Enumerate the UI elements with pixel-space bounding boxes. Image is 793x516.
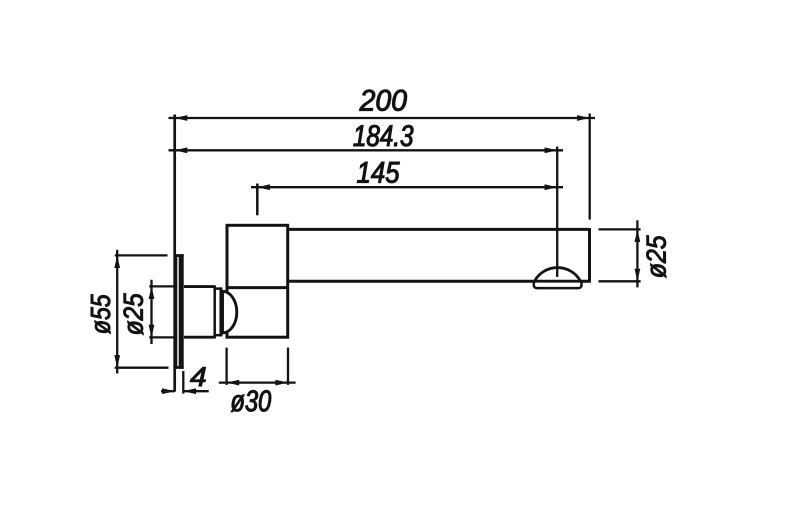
- stem top line (diameter25 inlet shank): [183, 285, 215, 288]
- dimension 4 line right piece: [183, 390, 208, 392]
- diameter25 right bottom extension line: [599, 280, 641, 282]
- dimension 184.3 line: [169, 149, 564, 151]
- label diameter25 left: [124, 293, 144, 335]
- wall flange plate (diameter55 x 4) white underlay: [175, 254, 184, 369]
- wall flange right face band: [179, 254, 184, 369]
- diameter30 right arrow: [275, 380, 288, 386]
- dimension 145 line: [251, 186, 563, 188]
- diameter25 right top extension line: [599, 228, 641, 230]
- stem end vertical: [213, 285, 216, 338]
- dimension diameter30 line: [219, 381, 296, 383]
- label diameter30: [231, 390, 271, 412]
- diameter25 right top arrow: [635, 229, 641, 242]
- dimension 145 left extension line (body axis): [256, 184, 259, 216]
- dimension diameter55 line: [116, 250, 118, 374]
- dimension 4 left arrow (outside, pointing right): [162, 388, 175, 394]
- dimension 145 right arrow: [545, 184, 558, 190]
- diameter55 bottom extension line: [115, 367, 169, 369]
- diameter55 top extension line: [115, 254, 168, 256]
- dimension 4 right arrow (outside, pointing left): [183, 388, 196, 394]
- label diameter25 right: [646, 235, 666, 277]
- ring bottom edge: [215, 334, 223, 337]
- label diameter55: [91, 294, 110, 333]
- wall flange bottom cap: [174, 366, 183, 369]
- ring right vertical: [219, 288, 222, 337]
- dimension 200 right extension line: [589, 114, 591, 220]
- label 200: [360, 90, 407, 111]
- diameter25 right bottom arrow: [635, 269, 641, 282]
- diameter55 bottom arrow: [114, 355, 120, 368]
- diameter30 left extension line: [225, 348, 227, 385]
- outlet base bar: [534, 281, 582, 289]
- wall flange left face: [174, 254, 177, 369]
- dimension 200 left arrow: [175, 115, 188, 121]
- dimension 184.3 right arrow: [545, 147, 558, 153]
- extension line from outlet axis up to 184.3 / 145 dims: [556, 147, 558, 277]
- dimension 200 line: [169, 117, 596, 119]
- label 4: [190, 367, 206, 386]
- dimension 4 right extension line: [182, 371, 184, 394]
- dimension diameter25 left line: [150, 280, 152, 344]
- diameter30 right extension line: [287, 348, 289, 385]
- dimension 200 right arrow: [577, 115, 590, 121]
- body internal joint line: [226, 286, 288, 289]
- diameter25 left top arrow: [149, 286, 155, 299]
- diameter25 left bottom extension line: [149, 336, 177, 338]
- dimension diameter25 right line: [636, 220, 638, 287]
- label 145: [357, 162, 399, 183]
- spout tube bottom line: [288, 280, 590, 283]
- dimension 4 line left piece: [161, 390, 175, 392]
- diameter55 top arrow: [114, 255, 120, 268]
- diameter25 left top extension line: [149, 285, 177, 287]
- label 184.3: [354, 125, 414, 146]
- wall extension line (left reference for 200 / 184.3 / 4): [173, 115, 176, 392]
- ball cap arc on body left: [223, 291, 237, 333]
- outlet dome: [535, 268, 581, 282]
- dimension 184.3 left arrow: [175, 147, 188, 153]
- stem bottom line: [183, 336, 215, 339]
- diameter30 left arrow: [227, 380, 240, 386]
- spout tube top line: [288, 228, 590, 231]
- valve body (diameter30 cylinder, side view): [227, 225, 288, 337]
- spout tube end vertical: [588, 228, 591, 283]
- wall flange top cap: [174, 254, 183, 257]
- dimension 145 left arrow: [257, 184, 270, 190]
- ring top edge: [215, 287, 223, 290]
- diameter25 left bottom arrow: [149, 325, 155, 338]
